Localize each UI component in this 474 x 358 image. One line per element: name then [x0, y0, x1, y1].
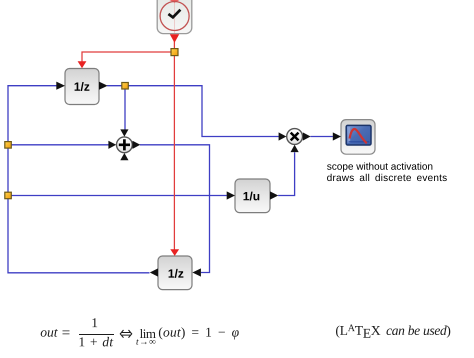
input arrow of top 1/z: [56, 82, 65, 90]
wire: junction down to sum block top input: [124, 86, 126, 130]
product block (x): [287, 129, 303, 145]
sum output arrow: [133, 141, 141, 149]
input arrow of bottom 1/z (points left into block): [192, 268, 201, 276]
unit delay block 1/z (bottom, mirrored): [158, 256, 192, 290]
wire: sum output right then down to bottom 1/z input: [140, 145, 210, 273]
text t1zb: [169, 269, 184, 278]
inverse block 1/u: [235, 179, 270, 213]
sum block (+): [117, 137, 133, 153]
text fnum: [92, 318, 97, 327]
sum left input arrow: [108, 141, 116, 149]
text t1z: [75, 82, 90, 91]
text note: [336, 324, 450, 337]
text flim: [140, 329, 156, 338]
sum bottom input arrow: [120, 153, 128, 160]
product output arrow: [303, 132, 311, 140]
text ftail: [159, 327, 239, 339]
node: feedback junction to sum block: [5, 142, 12, 149]
output arrow of top 1/z: [99, 82, 108, 90]
wire: red activation clock down to bottom 1/z: [173, 41, 175, 250]
product left input arrow: [279, 132, 287, 140]
text feq1: [62, 331, 69, 335]
text t1u: [244, 192, 260, 201]
output arrow of bottom 1/z (points left): [150, 268, 158, 276]
scope block: [341, 120, 375, 155]
wire: 1/u output up to product block bottom input: [278, 152, 295, 195]
sum top input arrow: [120, 129, 128, 136]
wire: left tap to sum block left input: [8, 144, 109, 146]
activation arrow into top 1/z: [78, 61, 87, 68]
wire: left tap to 1/u input: [8, 195, 227, 197]
node: activation junction below clock: [171, 49, 178, 56]
wire: top 1/z output to junction then down-right to product block left input: [107, 86, 279, 137]
product bottom input arrow: [291, 145, 299, 152]
wire: red activation branch left then down to top 1/z: [82, 52, 174, 62]
unit delay block 1/z (top): [65, 69, 99, 105]
double arrow iff symbol: [119, 329, 133, 339]
text lab2: [327, 174, 447, 181]
text lab1: [327, 162, 432, 171]
node: feedback junction to 1/u: [5, 192, 12, 199]
label: LaTeX formula out = 1/(1+dt) iff lim(out) = 1 - phi: [79, 334, 114, 335]
activation arrow into bottom 1/z: [170, 249, 179, 256]
clock source block (AlarmClock): [157, 0, 192, 43]
output arrow of 1/u: [270, 191, 278, 199]
text fden: [80, 337, 114, 347]
wire: feedback bus from bottom 1/z output up left side to top 1/z input: [8, 86, 150, 273]
node: junction on top 1/z output: [122, 83, 129, 90]
input arrow of scope: [333, 132, 341, 140]
text fsub: [136, 339, 155, 344]
text fout: [41, 329, 58, 337]
wire: product output to scope input: [310, 136, 333, 138]
input arrow of 1/u: [227, 191, 235, 199]
